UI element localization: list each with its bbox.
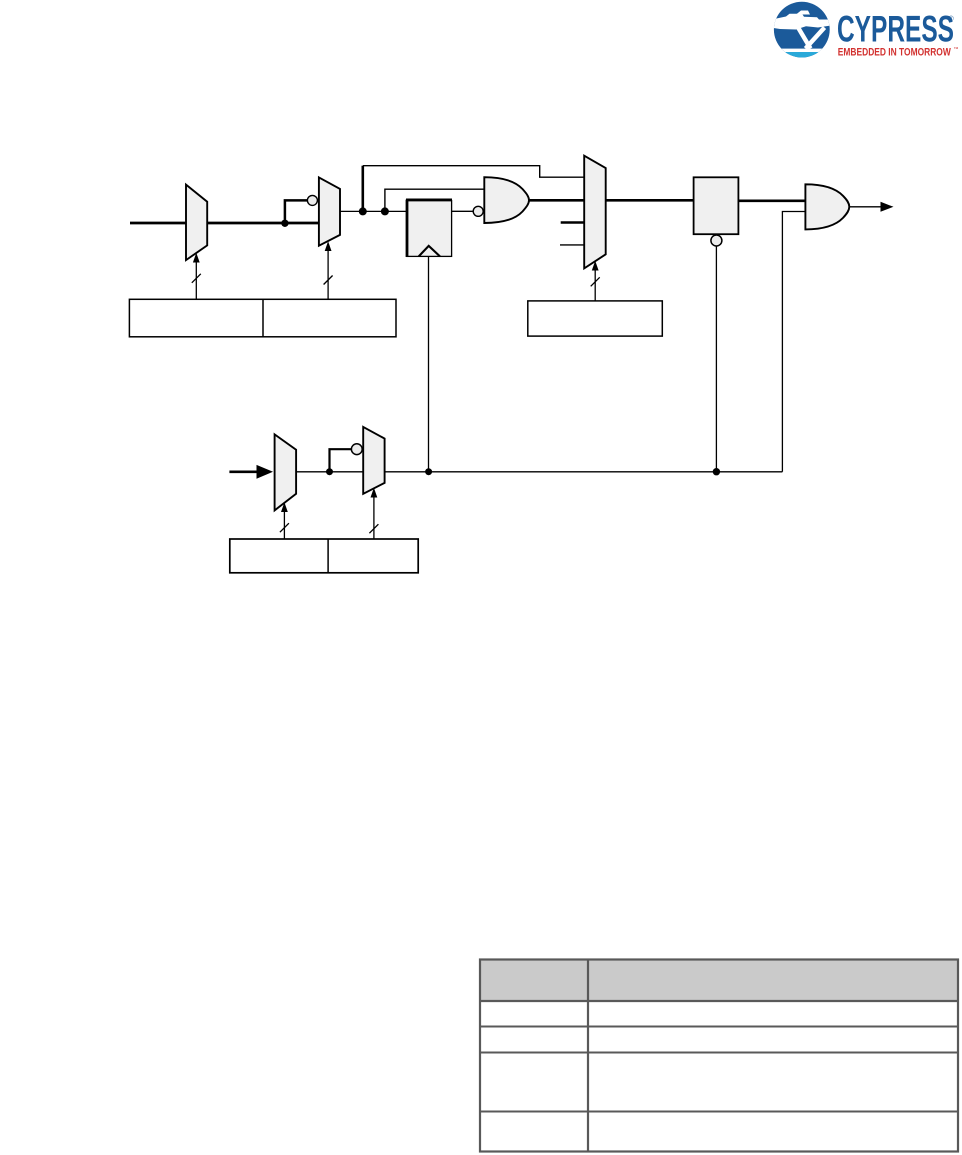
svg-text:CYPRESS: CYPRESS [837,9,954,50]
inverter bubble under block U2 [711,235,722,246]
inverter bubble on mux M4 input [351,444,362,455]
select line from R2 to mux M5 with bus slash [591,261,600,301]
table row line 1 [480,1000,958,1002]
svg-text:EMBEDDED IN TOMORROW: EMBEDDED IN TOMORROW [838,46,951,58]
mux M1 [186,185,207,261]
wire: lower row input with arrowhead into mux M3 [229,465,273,479]
wire: top feedback to mux M5 input 0 [363,166,585,178]
register box R1 [129,299,396,337]
mux M5 [584,156,606,269]
wire: block U2 output to AND gate G2 top input [738,199,806,202]
mux M4 [363,427,384,494]
wire: mux M1 output to mux M2 [207,222,320,225]
wire: branch up to inverter bubble of mux M2 [285,200,308,223]
table row line 2 [480,1026,958,1028]
table column divider [587,960,589,1152]
wire: flip-flop clock line down to lower net [428,256,430,471]
select line from R3 to mux M4 with bus slash [369,488,378,539]
wire: block U2 bubble down to lower net [715,246,717,472]
junction dot node A [359,207,367,215]
table row line 3 [480,1052,958,1054]
AND gate G2 [805,184,849,229]
inverter bubble on gate G1 lower input [473,206,483,216]
table outer border [480,960,958,1152]
register box R3 [230,539,418,573]
wire: stub input 2 of mux M5 [561,221,585,224]
svg-text:®: ® [949,15,955,23]
Cypress logo globe [772,2,832,60]
D flip-flop U1 [406,200,452,257]
junction dot clock net [425,468,432,475]
junction dot on M1-M2 wire [281,220,288,227]
table row line 4 [480,1111,958,1113]
wire: gate G2 output [849,206,881,208]
wire: mux M2 output to flip-flop D input [340,210,408,212]
register box R2 [528,301,663,336]
junction dot on M3-M4 wire [326,468,333,475]
select line from R1 to mux M2 with bus slash [324,241,333,299]
wire: feedback from node B to AND gate G1 top input [385,189,485,211]
table header row [480,960,958,1002]
wire: mux M5 output to block U2 [606,199,694,202]
select line from R1 to mux M1 with bus slash [192,253,201,299]
wire: gate G1 output to mux M5 [529,199,585,202]
inverter bubble on mux M2 input [307,195,317,205]
wire: branch up to inverter bubble of mux M4 [330,449,352,472]
wire: feedback vertical from node A [361,166,364,212]
block U2 [694,177,739,234]
output arrowhead [881,202,894,212]
mux M3 [275,434,297,510]
AND gate G1 [484,177,529,223]
svg-text:™: ™ [954,47,959,53]
wire: mux M3 output to mux M4 [296,471,364,473]
wire: lower net from mux M4 output [385,471,783,473]
wire: flip-flop Q output to bubble of gate G1 [452,210,474,212]
junction dot under block U2 [713,468,720,475]
wire: lower input of gate G2 from lower net [782,212,805,472]
select line from R3 to mux M3 with bus slash [280,502,289,539]
wire: main input to mux M1 [130,222,187,225]
junction dot node B [381,207,389,215]
mux M2 [319,177,340,245]
wire: stub input 3 of mux M5 [560,244,585,246]
